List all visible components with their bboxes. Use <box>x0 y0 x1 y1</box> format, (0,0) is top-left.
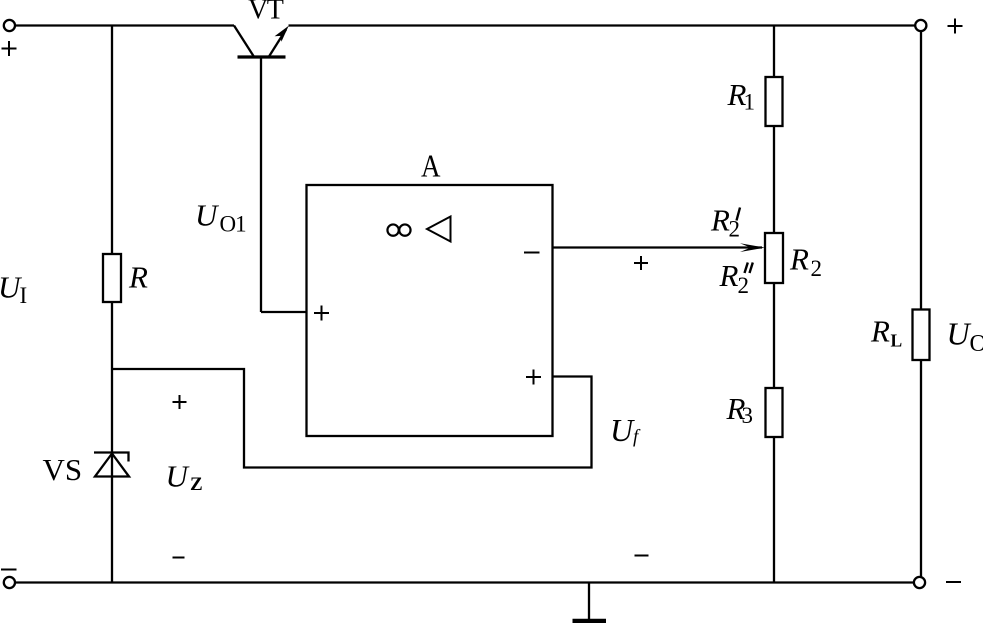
svg-text:I: I <box>20 283 28 308</box>
wire left column lower (R to bottom rail) <box>111 302 113 583</box>
svg-text:U: U <box>610 412 635 448</box>
wire divider column top (rail to R1) <box>773 26 775 78</box>
zener diode VS cathode bar <box>94 453 129 462</box>
wire R3 to bottom rail <box>773 437 775 583</box>
label R2prime <box>710 203 740 242</box>
zener diode VS triangle <box>95 454 129 477</box>
svg-text:Z: Z <box>190 474 203 495</box>
ground bar <box>573 619 607 623</box>
label UO <box>947 316 983 358</box>
label R3 <box>726 391 754 428</box>
svg-text:1: 1 <box>744 90 756 115</box>
op-amp plus output mark (left) <box>314 306 329 321</box>
svg-text:R: R <box>710 203 730 238</box>
label R1 <box>727 77 756 115</box>
svg-text:2: 2 <box>738 273 750 298</box>
svg-text:3: 3 <box>742 403 754 428</box>
label UZ <box>166 459 203 496</box>
terminal bottom-left <box>4 577 15 588</box>
resistor R3 <box>766 388 783 437</box>
plus sign at top-left terminal <box>2 41 17 56</box>
wire R1 to R2 <box>773 126 775 233</box>
svg-text:U: U <box>195 198 220 233</box>
wire left column upper (input to resistor R) <box>111 26 113 255</box>
plus sign above UZ <box>173 395 187 409</box>
svg-text:VT: VT <box>248 0 284 26</box>
svg-text:U: U <box>166 459 191 494</box>
svg-text:O: O <box>970 331 983 357</box>
svg-text:L: L <box>891 331 903 351</box>
op-amp minus input mark <box>524 252 540 254</box>
wire bottom rail <box>15 581 914 583</box>
svg-text:2: 2 <box>729 217 741 242</box>
label UI <box>0 270 27 309</box>
potentiometer R2 <box>765 233 783 283</box>
label Uf <box>610 412 641 448</box>
svg-text:U: U <box>947 316 972 352</box>
svg-text:2: 2 <box>811 256 823 281</box>
plus sign at top-right terminal <box>948 19 963 34</box>
wire feedback path (op-amp + lead, down, left, up, to zener node) <box>112 369 592 468</box>
wire op-amp output to R2 wiper <box>553 246 763 248</box>
wire top rail left segment <box>15 24 234 26</box>
wire RL to bottom terminal <box>920 360 922 577</box>
terminal bottom-right <box>914 577 925 588</box>
resistor R <box>103 254 121 302</box>
minus sign at bottom-left terminal <box>1 569 17 571</box>
minus sign below UZ <box>173 557 185 559</box>
terminal top-right <box>915 20 926 31</box>
svg-text:VS: VS <box>43 452 83 487</box>
svg-text:A: A <box>421 148 441 184</box>
resistor R1 <box>766 77 783 126</box>
R2 wiper arrowhead <box>740 243 765 252</box>
wire base lead into op-amp <box>261 311 307 313</box>
op-amp A box <box>307 185 553 436</box>
minus sign above bottom rail (Uf polarity) <box>635 555 649 557</box>
transistor VT emitter line <box>269 30 286 57</box>
label RL <box>870 314 902 351</box>
op-amp infinity symbol <box>387 224 410 235</box>
ground stub <box>588 583 590 619</box>
wire transistor base lead down <box>260 57 262 312</box>
minus sign at bottom-right terminal <box>946 581 961 583</box>
resistor RL <box>913 310 930 361</box>
svg-text:O1: O1 <box>220 212 247 237</box>
op-amp triangle symbol <box>427 217 451 242</box>
plus sign under wiper wire <box>634 256 648 270</box>
terminal top-left <box>4 20 15 31</box>
label R2 <box>789 242 822 282</box>
transistor VT emitter arrowhead <box>275 26 289 42</box>
svg-text:R: R <box>789 242 809 277</box>
label UO1 <box>195 198 246 237</box>
svg-text:R: R <box>870 314 890 349</box>
svg-text:R: R <box>128 260 148 295</box>
label R2doubleprime <box>719 258 753 298</box>
wire top rail right segment <box>289 24 916 26</box>
transistor VT collector diagonal <box>234 26 254 57</box>
transistor VT base bar <box>238 55 286 58</box>
wire R2 to R3 <box>773 283 775 388</box>
svg-text:R: R <box>719 258 739 293</box>
op-amp plus input mark (bottom right) <box>526 370 541 385</box>
wire load column top (rail to RL) <box>920 31 922 309</box>
